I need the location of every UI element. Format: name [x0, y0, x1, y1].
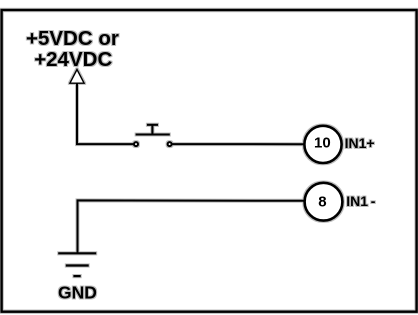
pushbutton switch S1 (normally-open momentary) — [134, 125, 172, 146]
svg-text:IN1-: IN1- — [346, 193, 376, 209]
svg-text:+5VDC or: +5VDC or — [26, 27, 119, 50]
svg-text:10: 10 — [314, 134, 331, 151]
terminal pin 10 — [304, 126, 341, 163]
svg-text:+24VDC: +24VDC — [34, 48, 112, 71]
svg-text:GND: GND — [58, 283, 97, 303]
wire: supply triangle down and right to switch — [77, 83, 134, 144]
wire: pin 8 left to corner and down to ground — [78, 200, 305, 253]
wire: switch to pin 10 — [172, 143, 305, 145]
terminal pin 8 — [305, 183, 343, 221]
svg-text:IN1+: IN1+ — [345, 135, 375, 151]
ground symbol — [58, 253, 96, 276]
net label +5VDC or +24VDC — [26, 27, 119, 71]
power supply symbol (triangle) — [70, 70, 84, 84]
svg-text:8: 8 — [318, 194, 326, 211]
